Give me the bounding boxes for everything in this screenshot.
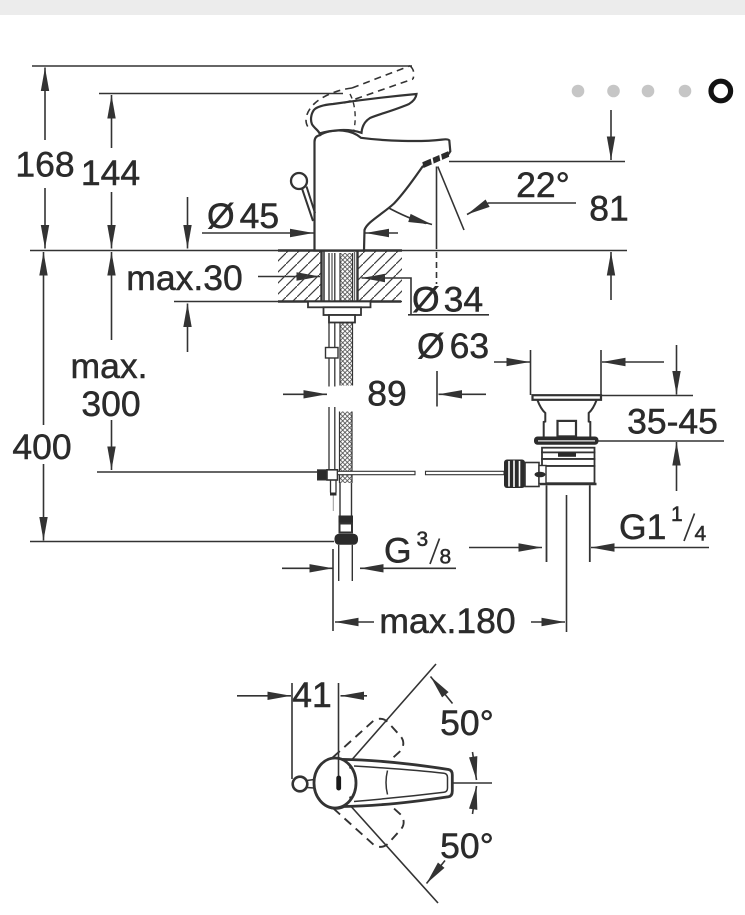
svg-text:35-45: 35-45 (627, 402, 718, 442)
svg-text:400: 400 (12, 427, 71, 467)
svg-text:81: 81 (589, 189, 629, 229)
svg-text:3: 3 (417, 528, 429, 551)
svg-text:4: 4 (695, 523, 707, 546)
svg-text:Ø34: Ø34 (412, 280, 483, 320)
svg-text:1: 1 (671, 503, 683, 526)
svg-text:Ø45: Ø45 (207, 196, 279, 236)
svg-text:Ø63: Ø63 (417, 326, 489, 366)
svg-text:144: 144 (81, 153, 140, 193)
svg-text:max.30: max.30 (126, 258, 242, 298)
svg-text:89: 89 (367, 374, 407, 414)
svg-text:300: 300 (81, 384, 140, 424)
svg-text:8: 8 (440, 546, 452, 569)
svg-text:max.180: max.180 (379, 601, 515, 641)
svg-text:G1: G1 (619, 507, 666, 547)
svg-text:G: G (384, 531, 412, 571)
svg-text:max.: max. (71, 346, 148, 386)
svg-text:168: 168 (15, 145, 74, 185)
svg-text:50°: 50° (440, 826, 494, 866)
svg-text:50°: 50° (440, 703, 494, 743)
svg-text:41: 41 (292, 675, 332, 715)
svg-text:22°: 22° (516, 165, 570, 205)
